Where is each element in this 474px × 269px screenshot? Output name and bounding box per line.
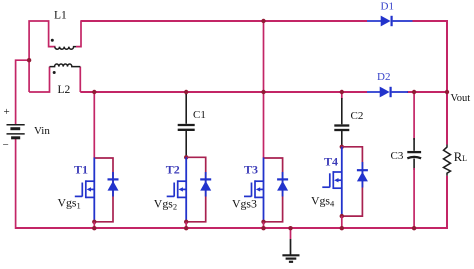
node T2 drain junction — [184, 155, 188, 159]
transistor T2 with body diode — [167, 157, 212, 222]
node T2 source loop — [184, 220, 188, 224]
node Vout junction — [445, 90, 449, 94]
wire T1 drain feed — [93, 92, 95, 158]
inductor L2 winding — [50, 64, 81, 67]
node T3 source loop — [261, 220, 265, 224]
svg-text:−: − — [3, 139, 9, 151]
node T4 drain junction — [340, 145, 344, 149]
wire T2 source stub — [185, 222, 187, 228]
wire L2 left branch — [29, 67, 49, 92]
node T2 on ground rail — [184, 226, 188, 230]
node T4 source loop — [340, 214, 344, 218]
inductor L2 dot mark — [53, 71, 56, 74]
node T3 on ground rail — [261, 226, 265, 230]
node T1 source loop — [92, 220, 96, 224]
svg-text:L1: L1 — [54, 10, 67, 22]
inductor L1 dot mark — [51, 39, 54, 42]
battery Vin symbol — [7, 125, 25, 138]
ground symbol — [282, 228, 299, 262]
wire L2 right lead down to second rail — [79, 67, 81, 92]
svg-text:C2: C2 — [351, 110, 364, 122]
svg-text:+: + — [4, 106, 10, 118]
svg-text:Vout: Vout — [451, 93, 471, 104]
wire second rail from L2 to D2 — [80, 91, 367, 93]
transistor T3 with body diode — [244, 158, 288, 223]
svg-text:T3: T3 — [244, 162, 258, 176]
diode D2 — [367, 87, 408, 98]
wire Vout rail right vertical — [446, 20, 448, 229]
node T1 feed on second rail — [92, 90, 96, 94]
transistor T1 with body diode — [75, 158, 119, 223]
svg-text:Vin: Vin — [34, 125, 50, 137]
svg-text:L2: L2 — [58, 84, 71, 96]
wire left riser between L1 and L2 branches — [29, 21, 55, 92]
wire L1 right lead up to top rail — [76, 20, 81, 46]
node T1 on ground rail — [92, 226, 96, 230]
wire top rail from L1 to D1 — [81, 20, 367, 22]
wire T3 drain feed from top rail — [263, 21, 265, 158]
capacitor C1 — [178, 92, 195, 157]
inductor L1 winding — [55, 47, 76, 50]
node T3 second rail crossing — [261, 90, 265, 94]
node C3 top — [412, 90, 416, 94]
svg-text:C1: C1 — [193, 109, 206, 121]
svg-text:T1: T1 — [74, 162, 88, 176]
resistor RL — [444, 145, 451, 176]
wire second rail after D2 to Vout node — [407, 91, 447, 93]
capacitor C2 — [334, 92, 349, 147]
wire T3 source stub — [263, 222, 265, 228]
capacitor C3 — [407, 92, 421, 229]
wire bottom ground rail — [16, 227, 448, 229]
svg-text:T2: T2 — [166, 162, 180, 176]
svg-text:D2: D2 — [377, 71, 390, 83]
node C2 top — [340, 90, 344, 94]
node ground on rail — [288, 226, 292, 230]
diode D1 — [367, 16, 413, 27]
svg-text:C3: C3 — [391, 150, 404, 162]
node T3 top rail — [261, 19, 265, 23]
transistor T4 with body diode — [322, 147, 368, 217]
node T4 on ground rail — [340, 226, 344, 230]
wire T1 source stub — [93, 222, 95, 228]
node C1 top — [184, 90, 188, 94]
wire T4 source stub — [341, 216, 343, 228]
node C3 bottom — [412, 226, 416, 230]
wire battery positive lead up and to junction — [16, 60, 30, 124]
svg-text:T4: T4 — [324, 155, 338, 169]
node junction left riser — [27, 58, 31, 62]
svg-text:Vgs3: Vgs3 — [232, 197, 257, 211]
wire top rail after D1 to corner — [413, 20, 448, 22]
wire battery negative lead down to bottom rail — [15, 139, 17, 230]
svg-text:D1: D1 — [381, 1, 394, 13]
